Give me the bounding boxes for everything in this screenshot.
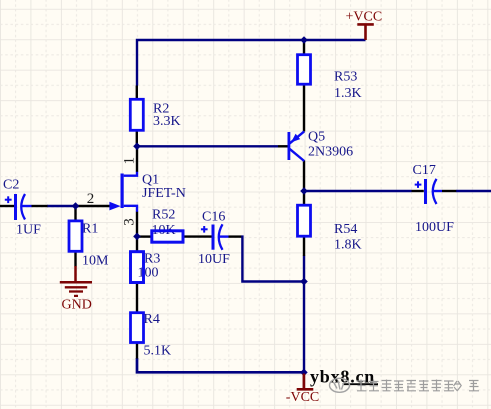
watermark company name <box>357 380 480 392</box>
wire R3 to R4 <box>136 283 138 313</box>
junction node bottom rail / -VCC <box>300 369 308 377</box>
pin Q1 gate <box>76 205 110 207</box>
capacitor C2 <box>5 194 32 220</box>
resistor R53 <box>298 55 311 84</box>
junction node input <box>72 202 80 210</box>
pin R2 bottom <box>136 130 138 147</box>
pin R54 bottom <box>303 236 305 256</box>
svg-text:5.1K: 5.1K <box>144 344 172 359</box>
svg-text:R52: R52 <box>152 208 175 223</box>
pin Q1 source (3) <box>136 212 138 237</box>
junction node Q1 source / R3 / R52 <box>133 233 141 241</box>
svg-text:100: 100 <box>138 266 159 281</box>
pin Q5 collector <box>303 161 305 192</box>
wire output node to C17 <box>304 190 412 192</box>
svg-text:1UF: 1UF <box>16 223 41 238</box>
resistor R4 <box>131 313 144 343</box>
svg-text:3: 3 <box>122 218 138 226</box>
junction node top rail / R53 <box>300 36 308 44</box>
pin Q1 drain (1) <box>136 146 138 172</box>
resistor R2 <box>130 99 143 130</box>
svg-text:JFET-N: JFET-N <box>142 186 186 201</box>
junction node Q1 drain / R2 <box>133 143 141 151</box>
svg-text:10UF: 10UF <box>198 252 230 267</box>
svg-text:C2: C2 <box>3 178 19 193</box>
pin R52 left <box>137 235 152 237</box>
svg-text:-VCC: -VCC <box>286 390 319 405</box>
wire R54 bottom <box>303 256 305 283</box>
pin R4 bottom <box>136 343 138 359</box>
svg-text:2N3906: 2N3906 <box>308 145 353 160</box>
svg-text:R53: R53 <box>334 70 357 85</box>
svg-text:R3: R3 <box>144 252 160 267</box>
pin R54 top <box>303 191 305 205</box>
svg-text:R54: R54 <box>334 222 357 237</box>
wire lower node to bottom rail <box>303 282 305 372</box>
resistor R1 <box>69 221 82 251</box>
svg-text:Q5: Q5 <box>308 130 325 145</box>
capacitor C17 <box>415 179 442 204</box>
svg-text:10M: 10M <box>82 254 109 269</box>
pin C16 right <box>229 235 242 237</box>
pin R53 bottom to Q5 emitter <box>303 84 305 132</box>
pin C17 left <box>412 190 424 192</box>
junction node output / R54 <box>300 187 308 195</box>
svg-text:1: 1 <box>122 157 138 165</box>
svg-text:C17: C17 <box>413 163 436 178</box>
junction node C16 / R54 bottom <box>300 278 308 286</box>
ground GND <box>60 266 92 296</box>
wire input node <box>47 205 76 207</box>
wire input left black <box>0 205 14 207</box>
power -VCC <box>297 374 314 390</box>
svg-text:2: 2 <box>87 191 95 207</box>
svg-text:R1: R1 <box>82 222 98 237</box>
svg-text:100UF: 100UF <box>415 220 454 235</box>
power +VCC <box>357 24 374 40</box>
pin Q5 base <box>278 145 288 147</box>
pin C17 right <box>442 190 456 192</box>
resistor R52 <box>152 231 183 242</box>
svg-text:GND: GND <box>62 298 92 313</box>
transistor Q5 2N3906 <box>288 131 305 161</box>
wire C16 to lower node <box>241 237 304 282</box>
svg-text:+VCC: +VCC <box>346 10 383 25</box>
resistor R54 <box>298 205 311 236</box>
svg-text:R4: R4 <box>144 312 160 327</box>
svg-text:1.8K: 1.8K <box>334 238 362 253</box>
pin R1 top <box>74 206 76 221</box>
transistor Q1 JFET-N <box>109 172 137 212</box>
pin R1 bottom <box>74 251 76 266</box>
wire C17 output <box>456 190 491 192</box>
watermark logo circle <box>330 378 350 392</box>
wire Q1 base to Q5 <box>137 145 278 147</box>
pin R53 top <box>303 40 305 55</box>
resistor R3 <box>131 252 144 283</box>
pin R3 top <box>136 236 138 251</box>
svg-text:C16: C16 <box>202 210 225 225</box>
svg-text:1.3K: 1.3K <box>334 86 362 101</box>
pin C2 right <box>32 205 48 207</box>
wire top rail VCC <box>137 40 366 86</box>
capacitor C16 <box>201 224 229 250</box>
svg-text:3.3K: 3.3K <box>153 114 181 129</box>
wire bottom rail <box>137 358 304 372</box>
pin C16 left <box>183 235 212 237</box>
pin R2 top <box>136 86 138 100</box>
